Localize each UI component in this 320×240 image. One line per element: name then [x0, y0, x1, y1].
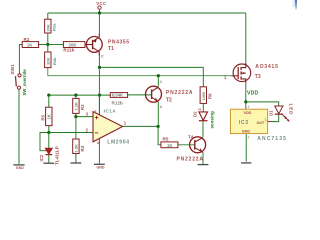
wire VDD to LED	[246, 102, 279, 106]
wire TL431 cathode lead	[48, 133, 50, 149]
wire T2 emitter down	[157, 102, 159, 126]
svg-text:1: 1	[124, 120, 127, 125]
svg-text:T1: T1	[108, 46, 114, 52]
svg-text:PN2222A: PN2222A	[177, 157, 204, 163]
svg-text:3: 3	[86, 112, 89, 117]
resistor R11b	[63, 42, 85, 48]
op-amp IC1A LM2904	[93, 112, 123, 142]
svg-text:R1a: R1a	[52, 23, 57, 31]
svg-text:TL431LP: TL431LP	[55, 146, 60, 165]
wire R12a bottom to junction	[47, 33, 49, 45]
node R5 top junction	[47, 94, 50, 97]
node output junction	[157, 125, 160, 128]
wire R4 bottom lead	[75, 154, 77, 163]
wire junction to R11a top	[47, 45, 49, 53]
svg-text:D1: D1	[269, 110, 274, 116]
wire TL431 anode lead	[48, 155, 50, 163]
ground sw1	[13, 164, 24, 166]
svg-text:1K: 1K	[167, 143, 172, 148]
node V+ tap junction	[98, 94, 101, 97]
ground ic3	[241, 162, 251, 164]
svg-text:IC3: IC3	[239, 120, 249, 126]
svg-text:GND: GND	[242, 130, 251, 134]
wire VCC rail	[48, 12, 246, 14]
svg-text:SW1: SW1	[10, 64, 15, 75]
wire R12b right lead to T2 base	[128, 94, 152, 96]
svg-text:GND: GND	[16, 166, 24, 170]
svg-text:R12b: R12b	[112, 100, 123, 105]
resistor R12b	[110, 93, 127, 98]
ground t4	[198, 164, 209, 166]
resistor R4	[73, 139, 79, 154]
diode D2	[199, 112, 208, 121]
node TL431 cathode junction	[47, 131, 50, 134]
node R3 top junction	[74, 94, 77, 97]
svg-text:2: 2	[160, 105, 162, 109]
svg-text:R3: R3	[80, 104, 85, 110]
node divider junction	[46, 43, 49, 46]
svg-text:20K: 20K	[46, 24, 51, 31]
wire opamp V+ pin	[98, 95, 100, 115]
wire R3 bottom lead	[75, 113, 77, 116]
wire TL431 ref loop	[40, 133, 49, 151]
svg-text:PN4355: PN4355	[108, 40, 130, 46]
wire opamp output	[123, 125, 159, 127]
svg-text:T4: T4	[188, 134, 194, 139]
svg-text:T3: T3	[255, 74, 261, 80]
ic TL431 IC2	[44, 148, 52, 154]
svg-text:LED: LED	[289, 104, 294, 116]
resistor R11a	[45, 52, 51, 68]
resistor R5	[46, 107, 52, 125]
node VCC junction	[98, 11, 101, 14]
svg-text:R6: R6	[208, 93, 213, 99]
node VDD junction	[244, 100, 247, 103]
svg-text:10K: 10K	[46, 58, 51, 65]
ground opamp	[94, 163, 105, 165]
wire IC3 GND pin	[245, 134, 247, 162]
wire output to R9	[158, 126, 161, 144]
transistor T4 PN2222A	[190, 137, 206, 153]
svg-text:R1b: R1b	[52, 57, 57, 65]
wire T3 drain down	[245, 83, 247, 102]
svg-text:LM2904: LM2904	[107, 139, 130, 145]
svg-text:T2: T2	[166, 97, 172, 103]
wire R5 bottom lead	[48, 126, 50, 133]
node T1 collector junction	[98, 66, 101, 69]
svg-text:R2: R2	[24, 37, 30, 42]
vcc symbol	[98, 6, 101, 9]
svg-text:PN2222A: PN2222A	[166, 90, 193, 96]
wire IC3 VDD pin	[245, 102, 247, 109]
wire opamp V- pin to ground	[98, 139, 100, 164]
wire R5 top lead	[48, 95, 50, 107]
svg-text:R5: R5	[41, 114, 46, 120]
resistor R3	[73, 98, 79, 113]
ic IC3 ANC7135	[230, 109, 267, 133]
wire R2 right lead to junction	[39, 44, 48, 46]
wire junction to R11b left	[48, 44, 64, 46]
svg-text:R4: R4	[80, 145, 85, 151]
mosfet T3 AO3415	[232, 63, 251, 83]
wire sense rail y95	[49, 94, 111, 96]
wire LED cathode to OUT	[272, 114, 279, 121]
svg-text:sensing: sensing	[209, 111, 214, 129]
svg-text:IC1A: IC1A	[104, 109, 117, 114]
wire T1 emitter to rail	[98, 13, 100, 33]
svg-text:ANC7135: ANC7135	[257, 136, 287, 142]
svg-text:R11b: R11b	[63, 48, 74, 53]
wire T2 collector up	[157, 76, 159, 87]
svg-text:SW_override: SW_override	[22, 69, 27, 96]
svg-text:1.5K: 1.5K	[74, 144, 79, 153]
wire pin3 net	[76, 116, 93, 118]
svg-text:1K: 1K	[47, 113, 52, 119]
resistor R9	[161, 142, 178, 148]
wire R11a bottom, gate net horizontal	[48, 68, 232, 76]
svg-text:1K: 1K	[27, 43, 32, 48]
wire collector node horizontal to R6	[100, 67, 204, 86]
svg-text:VCC: VCC	[96, 1, 107, 6]
svg-text:AO3415: AO3415	[255, 64, 278, 70]
node plus-input junction	[74, 115, 77, 118]
wire T4 emitter to ground	[202, 152, 204, 164]
transistor T2 PN2222A	[146, 86, 162, 102]
wire pin2 net	[49, 132, 93, 134]
svg-text:C: C	[101, 55, 104, 59]
wire divider top: rail to R12a	[47, 13, 49, 19]
switch SW1	[16, 74, 22, 89]
svg-text:IC2: IC2	[39, 154, 44, 161]
svg-text:GND: GND	[97, 166, 105, 170]
ground tl431	[43, 162, 54, 164]
wire D2 cathode to T4 collector	[202, 121, 204, 138]
wire plus-input to R4	[75, 117, 77, 139]
wire rail corner to T3	[245, 13, 247, 63]
svg-text:2.2K: 2.2K	[74, 102, 79, 111]
svg-text:2: 2	[86, 127, 89, 132]
wire R9 right lead to T4 base	[178, 144, 195, 146]
svg-text:1: 1	[160, 80, 162, 84]
svg-text:6.04K: 6.04K	[112, 93, 123, 98]
resistor R6	[200, 87, 206, 104]
wire switch bottom to ground	[18, 89, 20, 163]
svg-text:R5: R5	[163, 136, 169, 141]
wire R6 bottom to D2	[202, 103, 204, 111]
resistor R12a	[45, 19, 51, 33]
transistor T1 PN4355	[86, 33, 103, 56]
wire T1 collector column	[98, 52, 100, 115]
svg-text:D2: D2	[192, 111, 197, 117]
svg-text:1: 1	[265, 118, 267, 122]
svg-text:VDD: VDD	[244, 111, 252, 115]
svg-text:3: 3	[248, 105, 250, 109]
led D1	[267, 106, 289, 122]
wire R2 left to switch	[19, 45, 22, 74]
wire R3 top lead	[75, 95, 77, 98]
svg-text:2: 2	[198, 108, 202, 110]
ground r4	[71, 162, 82, 164]
svg-text:2: 2	[248, 136, 250, 140]
svg-text:1000: 1000	[202, 92, 206, 100]
wire VCC stub	[99, 10, 101, 13]
node T2 collector junction	[157, 74, 160, 77]
svg-text:VDD: VDD	[247, 91, 259, 97]
resistor R2	[22, 42, 38, 48]
